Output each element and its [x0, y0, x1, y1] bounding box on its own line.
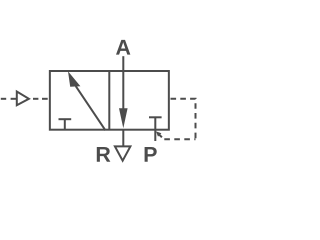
pilot feedback dashed bottom run — [163, 138, 195, 140]
arrow down (A to R path) — [119, 108, 128, 128]
pilot dashed line left — [1, 98, 6, 100]
diagonal arrow (P to A path) — [76, 86, 106, 130]
valve body box — [50, 71, 169, 130]
blocked port T right — [149, 116, 162, 118]
valve schematic 3/2-way pilot valve — [0, 0, 200, 200]
divider between positions — [108, 71, 110, 130]
pilot arrow to P port — [159, 134, 162, 137]
blocked port T left — [59, 118, 72, 120]
pilot feedback dashed path right — [171, 99, 196, 139]
port label A — [116, 40, 130, 55]
wire to vent — [122, 130, 124, 146]
wire from port A — [122, 56, 124, 112]
port label P — [145, 147, 157, 162]
port label R — [97, 147, 111, 162]
pilot triangle — [17, 92, 29, 106]
vent triangle — [115, 146, 130, 160]
